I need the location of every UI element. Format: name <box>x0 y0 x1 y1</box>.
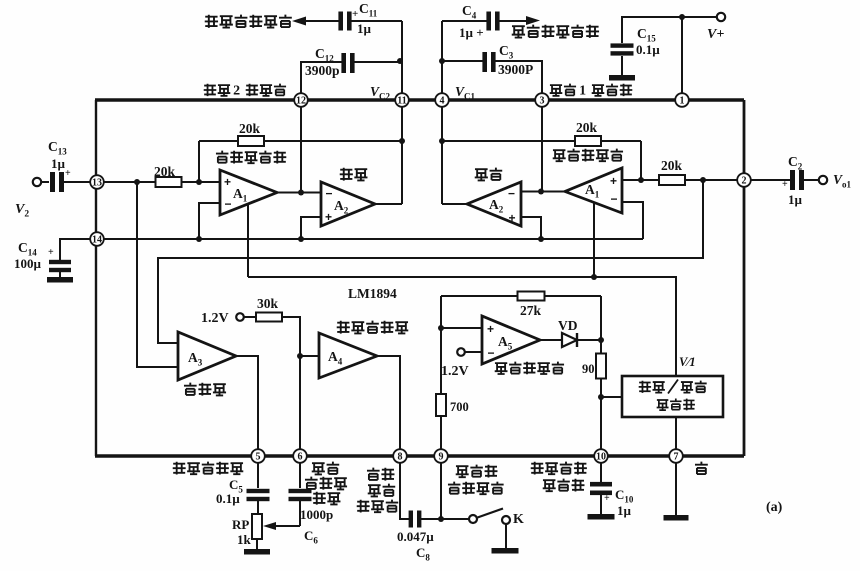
wire: A1' inverting loop to ref line <box>622 202 643 239</box>
wire: A3 tap vertical channel 2 <box>137 182 178 367</box>
pin 8 <box>393 449 407 463</box>
svg-text:+: + <box>48 247 54 258</box>
svg-text:30k: 30k <box>257 296 279 311</box>
resistor 20k feedback channel 2 <box>238 136 264 146</box>
wire: 27k right vertical down to pin 10 <box>600 296 602 456</box>
svg-text:+: + <box>224 175 231 189</box>
pin 6 <box>293 449 307 463</box>
wire: pin 3 vertical to A1' output node <box>541 107 543 192</box>
svg-text:0.047µ: 0.047µ <box>397 529 434 544</box>
wire switch to ground <box>505 524 507 548</box>
junction C12/C11 node <box>397 58 403 64</box>
pin 13 <box>90 175 104 189</box>
resistor 90 <box>596 354 606 379</box>
wire: channel-2 integrator top rail (pins 12,11,4,3,1) <box>95 98 744 101</box>
terminal Vo1 output <box>819 176 827 184</box>
label 放大器 <box>305 477 318 489</box>
pin 1 <box>675 93 689 107</box>
label 器输出 (amp output) <box>357 500 370 513</box>
junction feedback node right <box>439 138 445 144</box>
label 地 (ground) <box>695 462 708 474</box>
op-amp A4 gain amplifier <box>319 333 377 378</box>
pin 9 <box>434 449 448 463</box>
svg-text:1µ: 1µ <box>51 156 66 171</box>
svg-text:−: − <box>326 187 333 201</box>
svg-text:V+: V+ <box>707 27 724 42</box>
svg-text:100µ: 100µ <box>14 256 42 271</box>
svg-text:+: + <box>325 210 332 224</box>
junction A5+ node <box>438 325 444 331</box>
svg-text:2: 2 <box>742 175 747 186</box>
svg-text:20k: 20k <box>576 120 598 135</box>
svg-text:90: 90 <box>582 362 595 376</box>
pin 10 <box>594 449 608 463</box>
svg-text:12: 12 <box>296 95 306 106</box>
svg-text:11: 11 <box>397 95 406 106</box>
pin 12 <box>294 93 308 107</box>
svg-text:+: + <box>610 174 617 188</box>
svg-text:14: 14 <box>92 234 102 245</box>
junction A2'+ on ref line <box>538 236 544 242</box>
label 峰值检 (peak det) <box>456 466 469 478</box>
svg-text:8: 8 <box>398 451 403 462</box>
label 器输出 (2) <box>543 480 556 492</box>
svg-text:700: 700 <box>450 400 469 414</box>
svg-text:1: 1 <box>579 83 586 98</box>
label 电流/电压 inside box <box>639 381 651 393</box>
wire: feedback right vertical <box>640 141 642 180</box>
wire: pin4 vertical (C4 down through feedback to A2' output) <box>441 21 443 204</box>
label 峰值检波 <box>531 462 544 475</box>
pin 4 <box>435 93 449 107</box>
capacitor C6 1000p <box>299 463 301 488</box>
wire: pin 7 to ground <box>675 463 677 515</box>
svg-text:−: − <box>611 192 618 206</box>
svg-text:0.1µ: 0.1µ <box>216 491 240 506</box>
wire: A2' output up to pin 4 <box>442 203 467 205</box>
svg-text:7: 7 <box>674 451 679 462</box>
junction A3 tap channel 2 <box>134 179 140 185</box>
pin 11 <box>395 93 409 107</box>
capacitor C2 1u output coupling <box>751 179 791 181</box>
svg-text:+: + <box>65 168 71 179</box>
svg-text:1k: 1k <box>237 532 252 547</box>
wire: A1 inverting input to 1.2V line <box>199 203 220 239</box>
wire: feedback left horizontal <box>199 140 402 142</box>
junction V/I tap node <box>598 394 604 400</box>
svg-text:20k: 20k <box>661 158 683 173</box>
wire: A1 output to A2 <box>277 192 321 194</box>
wire: A2 output up to pin 11 <box>375 203 402 205</box>
svg-text:+: + <box>509 211 516 225</box>
wire: feedback left vertical <box>198 141 200 182</box>
label 跨导放大器 (transconductance amp, left) <box>216 151 228 163</box>
resistor 20k feedback channel 1 <box>575 136 601 146</box>
wire: A5 - input <box>465 351 482 353</box>
wire: pin11 vertical (C11 down through feedback to A2 output) <box>401 21 403 204</box>
svg-text:1µ: 1µ <box>788 192 803 207</box>
wire: 27k left vertical to pin 9 branch <box>440 296 442 456</box>
arrow to volume controller (right) <box>526 16 540 25</box>
junction C3 node <box>439 58 445 64</box>
svg-text:−: − <box>225 197 232 211</box>
terminal V2 input <box>33 178 41 186</box>
wire: A2 noninverting input to 1.2V line <box>301 217 321 239</box>
terminal 1.2V bias for A5 <box>457 348 465 356</box>
wire RP to ground <box>256 539 258 549</box>
wire: pin 12 vertical to A1 output node <box>300 107 302 193</box>
label 到音量控制器 (to volume controller, left) <box>205 15 218 28</box>
label 增益 (2) <box>367 468 380 480</box>
svg-text:+: + <box>352 8 358 20</box>
wire: feedback right horizontal <box>442 140 641 142</box>
junction A1- on ref line <box>196 236 202 242</box>
svg-text:2: 2 <box>233 83 240 98</box>
capacitor C12 3900p integrator cap channel 2 <box>301 62 342 95</box>
arrow to volume controller (left) <box>292 17 306 26</box>
capacitor C3 3900P integrator cap channel 1 <box>442 60 483 62</box>
resistor 30k <box>244 316 256 318</box>
label 输入 (input) <box>313 492 326 505</box>
diode VD <box>540 339 562 341</box>
op-amp A1 transconductance channel 2 <box>220 170 277 215</box>
svg-text:+: + <box>782 179 788 190</box>
svg-text:3900p: 3900p <box>305 63 340 78</box>
resistor 27k peak detector feedback <box>441 295 601 297</box>
ground for RP <box>244 549 270 555</box>
wire: A3 output down to pin 5 <box>236 356 258 456</box>
label 加法器 (adder) <box>184 383 197 395</box>
junction A3 tap channel 1 <box>700 177 706 183</box>
svg-text:VD: VD <box>558 318 578 333</box>
wire: 1.2V reference line (pin 14) across both channels <box>104 238 643 240</box>
wire: A1' bottom control line down <box>593 202 595 277</box>
ground for C10 <box>588 514 615 520</box>
svg-text:3: 3 <box>540 95 545 106</box>
svg-text:1000p: 1000p <box>300 507 333 522</box>
wiper arrow for RP <box>275 525 300 527</box>
label 运放 (op amp, left) <box>340 168 353 181</box>
resistor 700 <box>436 394 446 416</box>
svg-text:6: 6 <box>298 451 303 462</box>
capacitor C8 0.047u <box>400 463 409 519</box>
capacitor C4 output to volume control (channel 1) <box>442 20 487 22</box>
junction diode/90 node <box>598 337 604 343</box>
ground for C15 <box>609 75 635 81</box>
junction pin3/A1'out <box>538 189 544 195</box>
capacitor C15 0.1u supply bypass <box>622 17 682 43</box>
ground for switch <box>492 548 519 554</box>
wire: gain-control line to V/I converter <box>248 277 676 376</box>
op-amp A2 channel 2 <box>321 182 375 226</box>
svg-text:1.2V: 1.2V <box>441 364 469 379</box>
op-amp A1' transconductance channel 1 <box>565 168 622 213</box>
wire: A4 output down to pin 8 <box>377 356 400 456</box>
label 到音量控制器 (to volume controller, right) <box>512 26 525 38</box>
svg-text:10: 10 <box>596 451 606 462</box>
pin 2 <box>737 173 751 187</box>
capacitor C11 output to volume control (channel 2) <box>305 20 339 22</box>
resistor 20k channel-1 output side <box>659 175 685 185</box>
capacitor C10 1u <box>600 463 602 482</box>
wire: box bottom to pin 7 <box>675 417 677 456</box>
svg-text:5: 5 <box>256 451 261 462</box>
op-amp A3 summing amp <box>178 332 236 380</box>
wire: pin 9 down to switch <box>440 463 442 519</box>
junction A2+ on ref line <box>298 236 304 242</box>
label 跨导放大器 (transconductance amp, right) <box>553 150 566 162</box>
svg-text:13: 13 <box>92 177 102 188</box>
capacitor C14 100u reference bypass <box>60 239 96 260</box>
junction V+ node <box>679 14 685 20</box>
op-amp A5 peak detector <box>482 316 540 364</box>
junction feedback/+input left <box>196 179 202 185</box>
svg-text:RP: RP <box>232 517 249 532</box>
wire: A2' noninverting to ref line <box>521 217 541 239</box>
svg-text:+: + <box>487 322 494 336</box>
svg-text:−: − <box>508 187 515 201</box>
svg-text:V∕1: V∕1 <box>679 355 696 369</box>
wire: right vertical bus (pin 2 branch) <box>743 100 746 456</box>
label 放大 (2) <box>368 485 381 497</box>
svg-text:1.2V: 1.2V <box>201 311 229 326</box>
block 电流/电压变换器 (current/voltage converter) box <box>622 376 723 417</box>
ground for C14 <box>47 277 73 283</box>
label 运放 (op amp, right) <box>475 169 488 181</box>
svg-text:1µ +: 1µ + <box>459 25 484 40</box>
pin 14 <box>90 232 104 246</box>
terminal 1.2V bias for 30k <box>236 313 244 321</box>
svg-text:1µ: 1µ <box>617 503 632 518</box>
svg-text:4: 4 <box>440 95 445 106</box>
op-amp A2' channel 1 <box>467 182 521 226</box>
junction A4 input node <box>297 353 303 359</box>
wire: V+ supply branch to pin 1 <box>682 17 717 100</box>
junction feedback/+input right <box>638 177 644 183</box>
label 加法器输出 (adder output) <box>173 462 186 475</box>
wire: 30k to pin 6 / A4 input <box>282 317 300 456</box>
svg-text:0.1µ: 0.1µ <box>636 42 660 57</box>
wire: A1' + input line to pin 2 <box>622 179 744 181</box>
svg-text:(a): (a) <box>766 500 783 515</box>
capacitor C5 0.1u <box>257 463 259 488</box>
potentiometer RP 1k <box>252 514 262 539</box>
svg-text:20k: 20k <box>154 164 176 179</box>
svg-text:1: 1 <box>680 95 685 106</box>
label 变压器 inside box <box>657 400 669 411</box>
label 通道2积分入 (channel 2 integrator input) <box>204 84 217 96</box>
wire: A4 input <box>300 355 319 357</box>
svg-text:27k: 27k <box>520 303 542 318</box>
pin 5 <box>251 449 265 463</box>
svg-text:1µ: 1µ <box>357 21 372 36</box>
terminal V+ <box>717 13 725 21</box>
wire: bottom rail <box>95 454 744 458</box>
label 波器输入 <box>448 482 460 494</box>
label 通道1积分入 (channel 1 integrator input) <box>550 85 563 96</box>
label 增益放大器 (gain amplifier) <box>337 321 350 334</box>
capacitor C13 1u input coupling <box>50 172 55 192</box>
junction pin12/A1out <box>298 190 304 196</box>
label 峰值检波器 (peak detector) <box>495 363 508 374</box>
wire: channel-1 tap down to A3 upper input <box>158 180 703 343</box>
svg-text:20k: 20k <box>239 121 261 136</box>
junction feedback node left <box>399 138 405 144</box>
pin 7 <box>669 449 683 463</box>
svg-text:9: 9 <box>439 451 444 462</box>
switch K <box>441 518 469 520</box>
wire: A5 + input <box>441 327 482 329</box>
resistor 20k channel-2 input <box>156 177 182 187</box>
pin 3 <box>535 93 549 107</box>
svg-text:LM1894: LM1894 <box>348 286 397 301</box>
wire: to V/I converter box <box>601 396 622 398</box>
svg-text:+: + <box>604 493 610 504</box>
label 增益 (gain) <box>312 463 325 475</box>
wire: left vertical bus (pins 13,14 to bottom rail) <box>95 100 97 456</box>
wire: A1 bottom control line down <box>247 204 249 277</box>
junction A1' control on line <box>591 274 597 280</box>
svg-text:−: − <box>488 346 495 360</box>
svg-text:3900P: 3900P <box>498 62 533 77</box>
svg-text:K: K <box>513 512 524 527</box>
wire: A2' inverting input to A1' output <box>521 191 565 193</box>
ground for pin 7 <box>664 515 689 521</box>
junction C8/switch node <box>438 516 444 522</box>
wire: channel-2 input line to A1+ <box>104 181 220 183</box>
